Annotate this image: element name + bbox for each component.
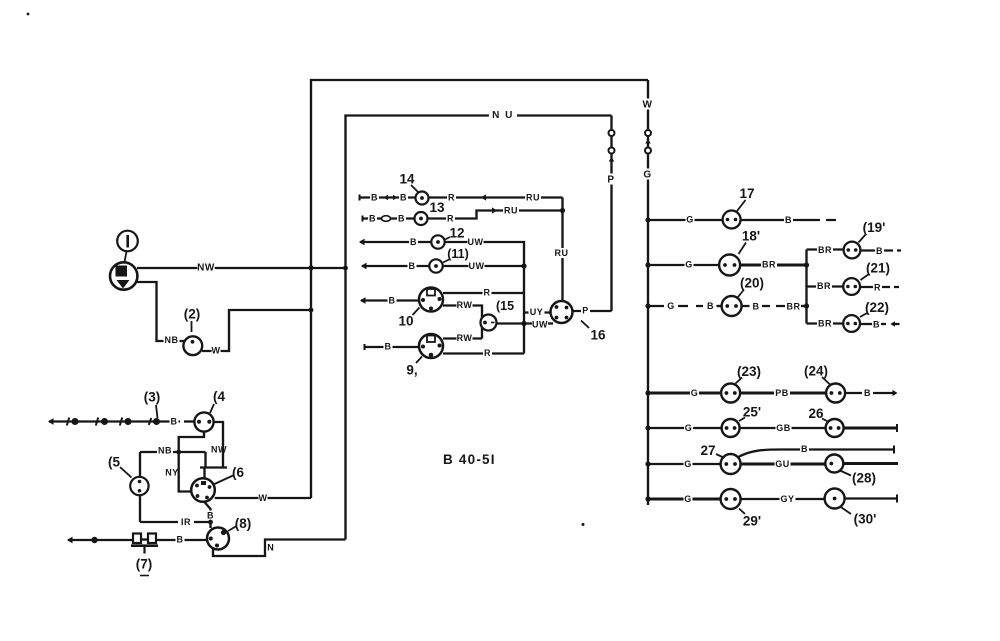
svg-text:RW: RW <box>457 333 473 343</box>
junction G bus row 25 <box>645 425 650 430</box>
wire W from component 2 <box>202 310 311 351</box>
component 13 <box>415 212 428 225</box>
wire P bus vertical <box>610 116 612 312</box>
junction UW column <box>521 263 526 268</box>
wire G row 20 dashed <box>648 305 703 307</box>
wire NW component 4 to component 6 top <box>200 422 227 479</box>
svg-text:10: 10 <box>398 313 413 328</box>
component 23 <box>721 384 740 403</box>
junction G bus row 20 <box>645 303 650 308</box>
component 4 <box>194 412 213 431</box>
component 30 <box>825 489 845 509</box>
wire RW from component 9 <box>443 337 482 339</box>
component 12 <box>431 235 444 248</box>
wire RU vertical to component 16 <box>561 198 563 302</box>
wire RW from component 10 <box>443 306 482 339</box>
svg-text:BR: BR <box>818 245 832 255</box>
wire R from component 9 <box>443 352 524 354</box>
wire N inner-loop left vertical and top <box>346 116 612 540</box>
svg-text:N: N <box>267 543 274 553</box>
component 22 <box>843 315 860 332</box>
svg-text:G: G <box>686 215 694 225</box>
junction G bus row 17 <box>645 217 650 222</box>
wire component 1 to component 2 NB <box>137 282 184 341</box>
component 15 <box>481 315 497 331</box>
svg-text:B: B <box>707 301 714 311</box>
svg-text:(6: (6 <box>232 465 244 480</box>
svg-text:(8): (8) <box>235 516 252 531</box>
svg-text:16: 16 <box>590 327 606 342</box>
svg-text:IR: IR <box>181 517 191 527</box>
wire B row 24 <box>845 392 894 394</box>
svg-text:W: W <box>212 346 221 356</box>
wire IR <box>140 521 211 523</box>
wire R row 21 <box>860 286 899 288</box>
svg-text:B: B <box>177 535 184 545</box>
svg-text:NW: NW <box>197 263 215 274</box>
wire UY stub to component 16 <box>524 311 551 313</box>
wire end row 30 <box>845 497 897 499</box>
svg-text:(3): (3) <box>144 389 161 404</box>
wire R/RU from component 14 <box>429 196 563 198</box>
svg-text:(2): (2) <box>184 306 201 321</box>
wire W outer-loop left vertical and top <box>311 80 648 498</box>
svg-text:R: R <box>448 193 455 203</box>
svg-text:(5: (5 <box>108 454 120 469</box>
svg-text:(28): (28) <box>852 470 876 485</box>
wire UW from component 12 <box>445 242 524 354</box>
component 14 <box>416 192 429 205</box>
wire G row 27 <box>648 463 721 465</box>
svg-text:(23): (23) <box>737 364 761 379</box>
svg-text:B: B <box>801 444 808 454</box>
junction NW crosses outer vertical <box>308 265 313 270</box>
wire B row 19 <box>860 249 901 251</box>
svg-text:B: B <box>876 246 883 256</box>
svg-text:25': 25' <box>743 404 761 419</box>
junction NW end at inner vertical <box>343 266 348 271</box>
component 27 <box>721 454 741 474</box>
wire BR row 21 <box>807 285 844 287</box>
component 6 <box>191 478 215 502</box>
svg-text:PB: PB <box>775 388 789 398</box>
component 21 <box>843 278 860 295</box>
svg-text:B: B <box>371 193 378 203</box>
component 11 <box>429 259 442 272</box>
svg-text:B: B <box>398 214 405 224</box>
svg-text:RU: RU <box>504 206 518 216</box>
svg-text:12: 12 <box>449 225 464 240</box>
wire continuation row 28 <box>843 462 898 465</box>
wire GB row 25 <box>740 427 826 429</box>
svg-text:NB: NB <box>165 335 179 345</box>
svg-text:(19': (19' <box>863 220 886 235</box>
svg-text:BR: BR <box>817 281 831 291</box>
svg-text:(7): (7) <box>136 556 153 571</box>
junction G bus row 18 <box>645 262 650 267</box>
wire P from component 16 <box>573 310 612 312</box>
svg-text:R: R <box>484 348 491 358</box>
wire B into component 8 <box>156 539 207 541</box>
svg-text:NB: NB <box>158 446 172 456</box>
junction W at outer vertical <box>309 308 314 313</box>
wire B feed to component 8 <box>68 539 134 541</box>
wire B component 6 bottom to junction <box>204 502 211 523</box>
wire B row component 14 <box>359 196 416 198</box>
wire NW from component 1 <box>137 267 346 269</box>
junction G bus row 27 <box>645 461 650 466</box>
speck top left <box>27 13 30 16</box>
svg-text:(30': (30' <box>854 511 877 526</box>
node W bus label <box>643 99 653 110</box>
svg-text:G: G <box>691 388 699 398</box>
speck near title <box>582 523 585 526</box>
svg-text:UY: UY <box>530 307 544 317</box>
svg-text:RU: RU <box>526 193 540 203</box>
wire BR row 22 <box>807 322 844 324</box>
wire BR distribution column <box>805 250 807 324</box>
wire W from component 6 <box>215 497 311 499</box>
node P bus label <box>606 174 616 185</box>
junction RU <box>560 208 565 213</box>
svg-text:W: W <box>259 493 268 503</box>
component 29 <box>721 489 741 509</box>
svg-text:B: B <box>207 511 214 521</box>
component 20 <box>722 296 742 316</box>
wire B feed row to component 4 <box>49 420 180 422</box>
wire B row component 9 <box>364 346 419 348</box>
wire G row 17 <box>648 219 723 221</box>
svg-text:18': 18' <box>742 228 760 243</box>
svg-text:B: B <box>400 193 407 203</box>
svg-text:(11): (11) <box>447 247 469 261</box>
svg-text:G: G <box>685 423 693 433</box>
wire R from component 10 <box>443 292 524 294</box>
svg-text:G: G <box>684 494 692 504</box>
wire B row 26 <box>844 427 897 430</box>
wire G row 25 <box>648 427 722 429</box>
svg-text:(24): (24) <box>804 363 828 378</box>
component 10 <box>419 288 443 312</box>
svg-text:27: 27 <box>700 443 715 458</box>
svg-text:G: G <box>684 459 692 469</box>
svg-text:R: R <box>874 283 881 293</box>
wire B-BR row 20 <box>742 305 785 307</box>
connector arrow on P bus <box>609 157 615 162</box>
svg-text:13: 13 <box>429 200 445 215</box>
junction G bus row 29 <box>645 496 650 501</box>
svg-text:RU: RU <box>555 248 569 258</box>
svg-text:B 40-5I: B 40-5I <box>443 452 496 467</box>
connector on W bus lower <box>645 148 651 154</box>
wire NB junction column from component 4 bottom <box>179 432 204 452</box>
component 26 <box>826 419 844 437</box>
svg-text:B: B <box>369 214 376 224</box>
svg-text:(20): (20) <box>740 275 764 290</box>
svg-text:B: B <box>410 237 417 247</box>
svg-text:G: G <box>643 170 651 181</box>
component 28 <box>825 455 843 473</box>
wire GU row 27 <box>741 463 826 466</box>
connector on P bus <box>609 130 615 136</box>
svg-text:BR: BR <box>818 319 832 329</box>
svg-text:GB: GB <box>776 423 791 433</box>
svg-text:GU: GU <box>775 459 790 469</box>
component 16 <box>551 301 573 323</box>
svg-text:26: 26 <box>808 406 824 421</box>
svg-text:R: R <box>484 288 491 298</box>
wire B row component 11 <box>362 265 429 267</box>
svg-text:(15: (15 <box>496 299 514 313</box>
wire UW component 15 to component 16 <box>497 322 554 324</box>
svg-text:R: R <box>447 214 454 224</box>
svg-text:B: B <box>385 342 392 352</box>
component 17 <box>723 211 741 229</box>
svg-text:B: B <box>409 261 416 271</box>
component 25 <box>722 419 740 437</box>
wire G row 23 <box>648 392 721 395</box>
wire B row 17 <box>741 219 836 221</box>
component 1 (control box) <box>110 262 137 289</box>
component 7 (fuse block) <box>133 534 141 544</box>
wire B row component 12 <box>360 241 431 243</box>
connector beads on feed row <box>67 418 69 426</box>
wire B row 22 <box>860 323 900 325</box>
svg-text:G: G <box>667 301 675 311</box>
wire UW from component 11 <box>443 265 524 267</box>
label 1 circled <box>117 231 138 252</box>
svg-text:17: 17 <box>739 186 754 201</box>
svg-text:B: B <box>389 296 396 306</box>
svg-text:BR: BR <box>787 302 801 312</box>
wire B branch row 27 <box>738 450 895 458</box>
svg-text:29': 29' <box>743 513 761 528</box>
wire NU label <box>489 109 517 120</box>
wire G row 29 <box>648 498 721 501</box>
connector arrow on W bus <box>645 139 651 144</box>
component 2 <box>183 336 202 355</box>
svg-text:P: P <box>607 175 614 186</box>
component 5 <box>139 452 141 522</box>
connector on P bus lower <box>609 148 615 154</box>
svg-text:B: B <box>753 302 760 312</box>
svg-text:UW: UW <box>532 320 548 330</box>
svg-text:9,: 9, <box>406 362 417 377</box>
wire GY row 29 <box>741 498 825 500</box>
svg-text:(21): (21) <box>866 260 890 275</box>
svg-text:BR: BR <box>762 260 776 270</box>
wire G row 18 <box>648 264 719 266</box>
junction UW at column <box>521 321 526 326</box>
svg-text:B: B <box>785 215 792 225</box>
svg-text:(22): (22) <box>865 300 889 315</box>
junction G bus row 23 <box>645 390 650 395</box>
svg-text:UW: UW <box>469 261 485 271</box>
wire B row component 10 <box>361 299 419 301</box>
svg-text:RW: RW <box>457 300 473 310</box>
svg-text:B: B <box>864 388 871 398</box>
node G bus label <box>643 169 653 180</box>
svg-text:G: G <box>685 260 693 270</box>
wire N from component 8 to inner loop <box>213 540 346 557</box>
svg-text:GY: GY <box>780 494 794 504</box>
svg-text:UW: UW <box>468 237 484 247</box>
wire R/RU jog from component 13 <box>428 211 563 219</box>
component 18 <box>719 255 740 276</box>
svg-text:P: P <box>582 306 589 316</box>
wire PB row 23 <box>740 392 826 395</box>
component 8 <box>207 528 229 550</box>
wire W/G main bus vertical <box>647 80 649 505</box>
wire NB horizontal <box>140 452 206 468</box>
component 19 <box>844 242 861 259</box>
svg-text:N U: N U <box>492 110 514 121</box>
svg-text:B: B <box>171 417 178 427</box>
svg-text:(4: (4 <box>213 389 225 404</box>
wire junction to component 8 top <box>209 522 211 528</box>
svg-text:NW: NW <box>211 445 227 455</box>
svg-text:NY: NY <box>165 468 179 478</box>
component 24 <box>826 384 845 403</box>
svg-text:14: 14 <box>399 171 415 186</box>
svg-text:W: W <box>643 100 653 111</box>
wire BR row 18 <box>740 264 806 267</box>
svg-text:B: B <box>873 320 880 330</box>
wire B row component 13 <box>362 217 415 219</box>
junction IR node <box>208 520 213 525</box>
connector on W bus <box>645 130 651 136</box>
wire NY to component 6 left <box>179 452 192 492</box>
component 9 <box>419 334 443 358</box>
wire BR row 19 <box>807 248 844 250</box>
